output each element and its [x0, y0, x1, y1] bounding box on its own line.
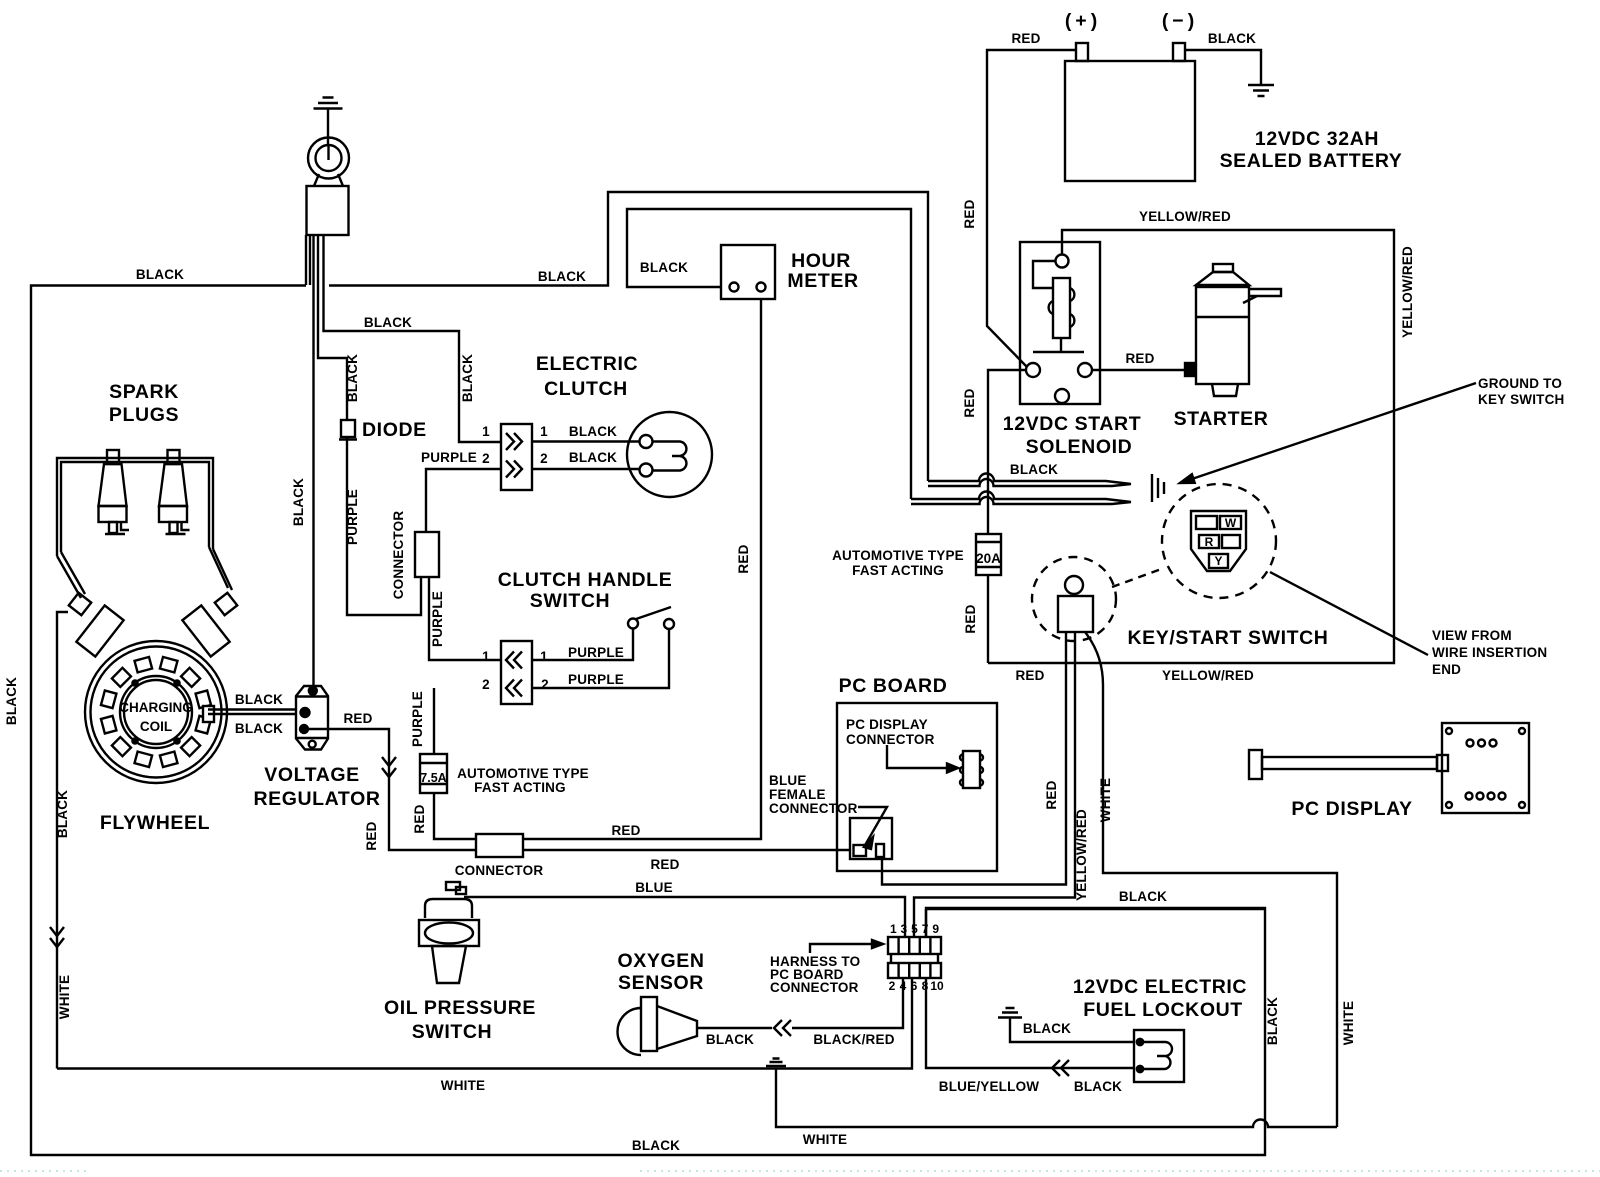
svg-text:FAST ACTING: FAST ACTING [852, 563, 944, 578]
svg-text:8: 8 [922, 979, 929, 993]
svg-text:BLACK: BLACK [632, 1138, 680, 1153]
svg-text:WIRE INSERTION: WIRE INSERTION [1432, 645, 1547, 660]
svg-text:2: 2 [540, 451, 548, 466]
svg-text:OIL PRESSURE: OIL PRESSURE [384, 997, 536, 1019]
svg-text:PC DISPLAY: PC DISPLAY [846, 717, 928, 732]
svg-text:YELLOW/RED: YELLOW/RED [1400, 246, 1415, 338]
svg-text:BLACK: BLACK [706, 1032, 754, 1047]
svg-text:AUTOMOTIVE TYPE: AUTOMOTIVE TYPE [457, 766, 589, 781]
svg-text:KEY/START SWITCH: KEY/START SWITCH [1128, 627, 1329, 649]
svg-text:PURPLE: PURPLE [421, 450, 477, 465]
svg-text:STARTER: STARTER [1174, 408, 1269, 430]
svg-text:Y: Y [1214, 554, 1222, 568]
svg-text:(−): (−) [1162, 10, 1198, 32]
svg-text:PURPLE: PURPLE [410, 691, 425, 747]
svg-text:7: 7 [922, 922, 929, 936]
svg-text:1: 1 [540, 649, 548, 664]
svg-text:WHITE: WHITE [803, 1132, 848, 1147]
svg-text:YELLOW/RED: YELLOW/RED [1162, 668, 1254, 683]
svg-text:AUTOMOTIVE TYPE: AUTOMOTIVE TYPE [832, 548, 964, 563]
svg-text:PLUGS: PLUGS [109, 404, 179, 426]
svg-text:GROUND TO: GROUND TO [1478, 376, 1562, 391]
svg-text:12VDC ELECTRIC: 12VDC ELECTRIC [1073, 976, 1247, 998]
svg-text:PC BOARD: PC BOARD [839, 675, 948, 697]
svg-text:BLACK: BLACK [538, 269, 586, 284]
svg-text:SWITCH: SWITCH [530, 590, 611, 612]
svg-text:2: 2 [482, 677, 490, 692]
svg-text:12VDC START: 12VDC START [1003, 413, 1141, 435]
svg-text:PURPLE: PURPLE [430, 591, 445, 647]
svg-text:1: 1 [890, 922, 897, 936]
svg-text:RED: RED [1011, 31, 1040, 46]
svg-text:4: 4 [900, 979, 907, 993]
svg-text:1: 1 [482, 424, 490, 439]
svg-text:BLACK: BLACK [136, 267, 184, 282]
svg-text:ELECTRIC: ELECTRIC [536, 353, 638, 375]
svg-text:WHITE: WHITE [441, 1078, 486, 1093]
svg-text:YELLOW/RED: YELLOW/RED [1074, 809, 1089, 901]
svg-text:REGULATOR: REGULATOR [253, 788, 380, 810]
svg-text:WHITE: WHITE [1341, 1001, 1356, 1046]
svg-text:9: 9 [932, 922, 939, 936]
svg-text:FAST ACTING: FAST ACTING [474, 780, 566, 795]
svg-text:SENSOR: SENSOR [618, 972, 704, 994]
svg-text:BLACK: BLACK [460, 354, 475, 402]
svg-text:BLUE: BLUE [769, 773, 807, 788]
svg-text:RED: RED [611, 823, 640, 838]
svg-text:1: 1 [540, 424, 548, 439]
svg-text:RED: RED [650, 857, 679, 872]
svg-text:1: 1 [482, 649, 490, 664]
svg-text:END: END [1432, 662, 1461, 677]
svg-text:CHARGING: CHARGING [119, 700, 193, 715]
svg-text:BLUE/YELLOW: BLUE/YELLOW [939, 1079, 1040, 1094]
svg-text:CONNECTOR: CONNECTOR [391, 511, 406, 600]
svg-text:PURPLE: PURPLE [568, 672, 624, 687]
svg-text:VIEW FROM: VIEW FROM [1432, 628, 1512, 643]
svg-text:3: 3 [901, 922, 908, 936]
svg-text:FUEL LOCKOUT: FUEL LOCKOUT [1083, 999, 1243, 1021]
svg-text:7.5A: 7.5A [420, 771, 446, 785]
svg-text:BLACK: BLACK [235, 692, 283, 707]
svg-text:BLACK: BLACK [1265, 997, 1280, 1045]
svg-text:DIODE: DIODE [362, 419, 427, 441]
svg-text:HOUR: HOUR [791, 250, 851, 272]
svg-text:RED: RED [963, 604, 978, 633]
svg-text:W: W [1225, 516, 1237, 530]
svg-text:BLACK: BLACK [235, 721, 283, 736]
svg-text:BLACK: BLACK [1119, 889, 1167, 904]
svg-text:6: 6 [911, 979, 918, 993]
svg-text:RED: RED [962, 199, 977, 228]
svg-text:KEY SWITCH: KEY SWITCH [1478, 392, 1565, 407]
svg-text:(+): (+) [1065, 10, 1101, 32]
svg-text:BLACK: BLACK [569, 450, 617, 465]
svg-text:BLACK/RED: BLACK/RED [813, 1032, 894, 1047]
svg-text:WHITE: WHITE [57, 975, 72, 1020]
svg-text:2: 2 [482, 451, 490, 466]
svg-text:VOLTAGE: VOLTAGE [264, 764, 360, 786]
svg-text:RED: RED [1015, 668, 1044, 683]
svg-text:5: 5 [911, 922, 918, 936]
svg-text:SPARK: SPARK [109, 381, 179, 403]
svg-text:PURPLE: PURPLE [568, 645, 624, 660]
svg-text:RED: RED [364, 821, 379, 850]
svg-text:CONNECTOR: CONNECTOR [769, 801, 858, 816]
svg-text:BLACK: BLACK [1010, 462, 1058, 477]
svg-text:RED: RED [1044, 780, 1059, 809]
svg-text:COIL: COIL [140, 719, 172, 734]
svg-text:FEMALE: FEMALE [769, 787, 826, 802]
svg-text:BLACK: BLACK [640, 260, 688, 275]
svg-text:CLUTCH: CLUTCH [544, 378, 628, 400]
svg-text:SEALED BATTERY: SEALED BATTERY [1220, 150, 1403, 172]
svg-text:SWITCH: SWITCH [412, 1021, 493, 1043]
svg-text:BLACK: BLACK [569, 424, 617, 439]
svg-text:2: 2 [889, 979, 896, 993]
svg-text:BLACK: BLACK [1023, 1021, 1071, 1036]
svg-text:RED: RED [412, 804, 427, 833]
svg-text:BLACK: BLACK [55, 790, 70, 838]
svg-text:BLACK: BLACK [1208, 31, 1256, 46]
svg-text:PURPLE: PURPLE [345, 489, 360, 545]
svg-text:YELLOW/RED: YELLOW/RED [1139, 209, 1231, 224]
svg-text:CONNECTOR: CONNECTOR [770, 980, 859, 995]
svg-text:PC DISPLAY: PC DISPLAY [1291, 798, 1412, 820]
svg-text:BLUE: BLUE [635, 880, 673, 895]
svg-text:CONNECTOR: CONNECTOR [455, 863, 544, 878]
svg-text:RED: RED [736, 544, 751, 573]
svg-text:BLACK: BLACK [4, 677, 19, 725]
svg-text:RED: RED [1125, 351, 1154, 366]
svg-text:RED: RED [962, 388, 977, 417]
svg-text:CLUTCH HANDLE: CLUTCH HANDLE [498, 569, 673, 591]
svg-text:BLACK: BLACK [291, 478, 306, 526]
svg-text:BLACK: BLACK [1074, 1079, 1122, 1094]
svg-text:CONNECTOR: CONNECTOR [846, 732, 935, 747]
svg-text:WHITE: WHITE [1098, 778, 1113, 823]
svg-text:2: 2 [541, 677, 549, 692]
svg-text:BLACK: BLACK [364, 315, 412, 330]
svg-text:12VDC 32AH: 12VDC 32AH [1255, 128, 1379, 150]
svg-text:20A: 20A [976, 551, 1001, 566]
svg-text:SOLENOID: SOLENOID [1026, 436, 1133, 458]
svg-text:OXYGEN: OXYGEN [617, 950, 704, 972]
svg-text:10: 10 [930, 979, 944, 993]
svg-text:BLACK: BLACK [345, 354, 360, 402]
svg-text:RED: RED [343, 711, 372, 726]
svg-text:R: R [1205, 535, 1214, 549]
svg-text:FLYWHEEL: FLYWHEEL [100, 812, 210, 834]
svg-text:METER: METER [787, 270, 858, 292]
